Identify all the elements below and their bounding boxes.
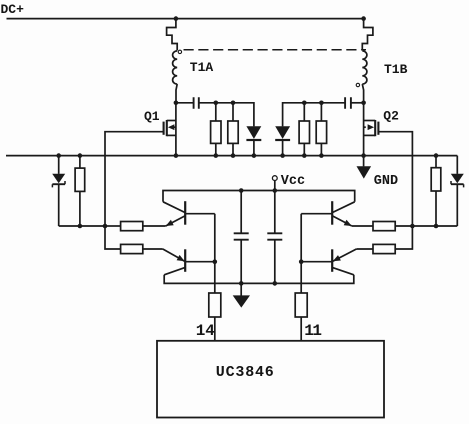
resistor R9 (pin 14) xyxy=(209,293,221,340)
capacitor C1 xyxy=(194,97,199,108)
resistor R6 xyxy=(121,244,143,253)
transistor Q4 (lower left driver) xyxy=(163,249,215,275)
node: R2 top xyxy=(231,101,236,106)
wire: drain node to C1 xyxy=(176,102,194,104)
resistor R7 xyxy=(373,222,395,231)
ground arrow (driver rail) xyxy=(233,283,250,307)
node: Q1 gate node xyxy=(103,224,108,229)
transformer T1B primary winding xyxy=(362,19,373,51)
svg-text:Q1: Q1 xyxy=(144,109,160,124)
wire: C2 to Q2 drain node xyxy=(351,102,364,104)
wire: C1 to D1 corner xyxy=(199,103,254,127)
diode D2 xyxy=(275,126,290,155)
transistor Q2 (MOSFET) xyxy=(364,103,379,156)
wire: driver Vcc rail xyxy=(163,191,355,202)
resistor R2 xyxy=(228,103,238,156)
svg-text:T1B: T1B xyxy=(384,62,408,77)
node: Q2 drain junction xyxy=(361,101,366,106)
zener ZD2 xyxy=(451,156,464,226)
node: Q1 source xyxy=(174,153,179,158)
node: Q1 drain junction xyxy=(174,101,179,106)
wire: driver ground rail xyxy=(164,275,354,284)
node: C4 rail bottom xyxy=(273,281,278,286)
diode D1 xyxy=(246,126,261,155)
wire: Q2 gate line xyxy=(378,132,412,249)
capacitor C3 xyxy=(234,191,249,284)
transformer T1A core (dashed) xyxy=(184,49,367,51)
node: left driver bases xyxy=(213,259,218,264)
wire: gate node to R5 xyxy=(105,225,121,227)
node: C3 rail top xyxy=(239,188,244,193)
transformer T1B secondary winding xyxy=(362,51,367,84)
node: R2 bottom xyxy=(231,153,236,158)
wire: R6 to Q4 emitter xyxy=(143,248,163,250)
wire: left bases to R9 xyxy=(214,214,216,293)
svg-text:Q2: Q2 xyxy=(383,108,399,123)
capacitor C2 xyxy=(345,97,351,108)
node: R3 bottom xyxy=(302,153,307,158)
svg-text:DC+: DC+ xyxy=(1,2,25,17)
node: Rgs2 top xyxy=(434,153,439,158)
resistor R8 xyxy=(373,244,395,253)
wire: R5 to Q3 emitter xyxy=(143,225,166,227)
wire: D2 corner to C2 xyxy=(283,103,346,127)
node: ZD1 top xyxy=(56,153,61,158)
node: right driver bases xyxy=(299,259,304,264)
wire: source bus xyxy=(6,155,457,157)
resistor R3 xyxy=(299,103,309,156)
node: R1 bottom xyxy=(214,153,219,158)
node: Rgs2 bottom xyxy=(434,224,439,229)
wire: DC+ top rail xyxy=(7,18,364,20)
wire: ZD1/Rgs1 bottom to gate node xyxy=(59,225,105,227)
resistor Rgs2 xyxy=(431,156,441,226)
node: Vcc rail junction xyxy=(273,188,278,193)
transistor Q1 (MOSFET) xyxy=(164,103,176,156)
node: Q2 gate node xyxy=(410,224,415,229)
wire: Q1 gate line xyxy=(105,132,164,249)
wire: T1A secondary to drain node xyxy=(176,84,177,103)
svg-text:GND: GND xyxy=(374,174,398,189)
IC U1 UC3846 xyxy=(157,341,384,418)
transformer T1A primary winding xyxy=(167,19,178,51)
transformer T1A secondary winding xyxy=(173,51,178,84)
node: Rgs1 bottom xyxy=(78,224,83,229)
svg-text:14: 14 xyxy=(196,322,216,340)
wire: ZD2/Rgs2 bottom to gate node xyxy=(412,225,457,227)
wire: right bases to R10 xyxy=(300,214,302,293)
node: D2 bottom xyxy=(280,153,285,158)
node: R4 bottom xyxy=(319,153,324,158)
svg-text:UC3846: UC3846 xyxy=(216,364,275,381)
transistor Q3 (upper left driver) xyxy=(163,201,215,226)
capacitor C4 xyxy=(267,191,282,284)
wire: R7 to gate node xyxy=(395,225,412,227)
node: Rgs1 top xyxy=(78,153,83,158)
node: T1A top junction xyxy=(174,16,179,21)
node: R4 top xyxy=(319,101,324,106)
transistor Q5 (upper right driver) xyxy=(301,201,355,226)
ground GND xyxy=(357,156,372,179)
node: C3 rail bottom xyxy=(239,281,244,286)
node: T1B top junction xyxy=(361,16,366,21)
svg-text:11: 11 xyxy=(304,322,321,340)
transformer T1B phase dot xyxy=(356,83,359,86)
wire: Q5 emitter to R7 xyxy=(352,225,373,227)
wire: R8 to Q6 emitter xyxy=(356,248,373,250)
node: D1 bottom xyxy=(252,153,257,158)
svg-text:Vcc: Vcc xyxy=(281,174,305,189)
svg-text:T1A: T1A xyxy=(190,60,214,75)
zener ZD1 xyxy=(52,156,65,226)
node: Q2 source xyxy=(361,153,366,158)
node: R3 top xyxy=(302,101,307,106)
resistor R4 xyxy=(316,103,326,156)
terminal Vcc xyxy=(272,176,277,191)
resistor R5 xyxy=(121,222,143,231)
resistor R10 (pin 11) xyxy=(295,293,307,340)
transistor Q6 (lower right driver) xyxy=(301,249,356,275)
resistor Rgs1 xyxy=(75,156,85,226)
resistor R1 xyxy=(211,103,221,156)
wire: T1B secondary to drain node xyxy=(362,84,363,103)
node: R1 top xyxy=(214,101,219,106)
transformer T1A phase dot xyxy=(178,50,181,53)
